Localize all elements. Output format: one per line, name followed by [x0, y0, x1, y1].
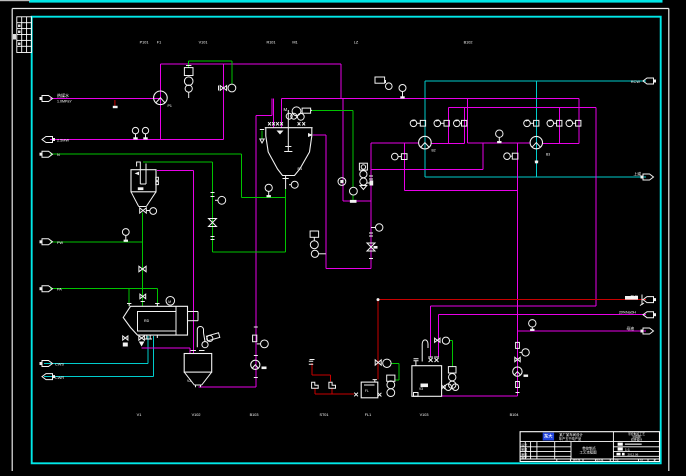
svg-text:CWR: CWR: [55, 376, 64, 380]
svg-text:20%NaOH: 20%NaOH: [619, 311, 637, 315]
svg-text:R101: R101: [266, 41, 275, 45]
svg-text:M: M: [168, 300, 171, 304]
svg-text:RCW: RCW: [631, 80, 640, 84]
svg-text:设计: 设计: [521, 442, 527, 447]
svg-text:V1: V1: [137, 413, 142, 417]
svg-text:V101: V101: [199, 41, 208, 45]
svg-text:B102: B102: [464, 41, 473, 45]
svg-text:制图: 制图: [521, 447, 527, 452]
svg-text:PA: PA: [57, 288, 62, 292]
svg-text:V103: V103: [420, 413, 429, 417]
svg-text:M1: M1: [292, 41, 297, 45]
svg-text:上塔: 上塔: [633, 172, 641, 177]
svg-text:Y4: Y4: [615, 458, 619, 462]
svg-text:蒸汽: 蒸汽: [630, 295, 638, 300]
svg-text:CWS: CWS: [55, 363, 64, 367]
svg-text:工艺流程图: 工艺流程图: [580, 449, 598, 454]
svg-text:P1: P1: [168, 104, 172, 108]
svg-text:共1张: 共1张: [573, 457, 580, 462]
svg-text:V3: V3: [419, 387, 423, 391]
svg-text:P101: P101: [140, 41, 149, 45]
svg-text:1.0MPaY: 1.0MPaY: [57, 100, 72, 104]
svg-text:FL1: FL1: [365, 413, 372, 417]
svg-text:F1: F1: [157, 41, 161, 45]
svg-text:V102: V102: [192, 413, 201, 417]
svg-text:B103: B103: [250, 413, 259, 417]
svg-text:年产五千吨产品: 年产五千吨产品: [559, 436, 581, 441]
svg-text:N: N: [57, 153, 60, 157]
svg-text:V2: V2: [187, 379, 191, 383]
svg-text:第1张: 第1张: [596, 457, 603, 462]
svg-text:审定: 审定: [521, 455, 527, 460]
svg-text:热媒水: 热媒水: [57, 92, 69, 98]
svg-text:B104: B104: [510, 413, 519, 417]
svg-text:2012.06: 2012.06: [628, 453, 639, 457]
svg-text:1:1: 1:1: [625, 448, 630, 452]
svg-text:B3: B3: [546, 153, 550, 157]
svg-text:R1: R1: [298, 167, 303, 171]
svg-text:M: M: [284, 107, 288, 112]
svg-text:FL: FL: [365, 389, 369, 393]
svg-text:PW: PW: [57, 241, 64, 245]
svg-text:LZ: LZ: [354, 41, 359, 45]
svg-text:01: 01: [640, 458, 644, 462]
svg-text:母液: 母液: [626, 326, 634, 331]
svg-text:B2: B2: [432, 149, 436, 153]
svg-text:2.5MW: 2.5MW: [57, 139, 69, 143]
svg-text:东大: 东大: [544, 433, 553, 440]
svg-text:初步设计: 初步设计: [631, 438, 642, 442]
svg-text:ST01: ST01: [319, 413, 328, 417]
svg-text:RD: RD: [144, 319, 150, 323]
